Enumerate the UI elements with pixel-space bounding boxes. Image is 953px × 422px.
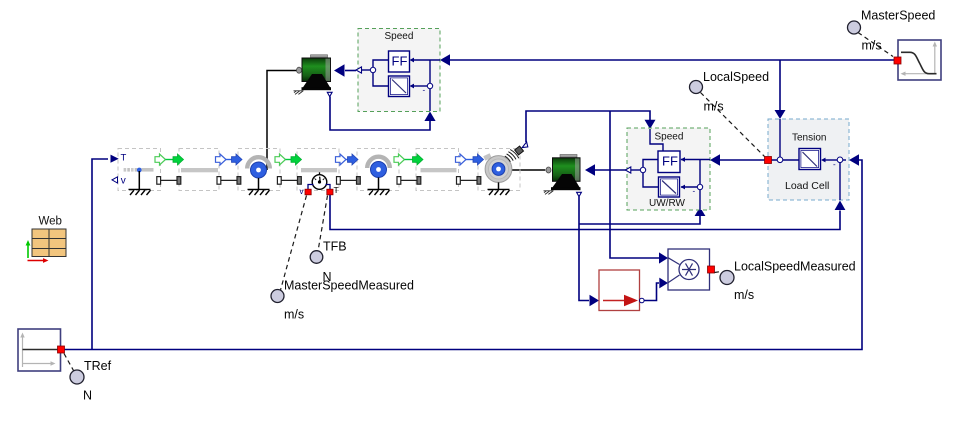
dashed link MasterSpeedMeasured bubble to gauge v connector [281,196,307,291]
svg-text:MasterSpeedMeasured: MasterSpeedMeasured [284,279,414,293]
module box roller 1 [238,149,280,191]
svg-text:-: - [693,187,696,196]
node MasterSpeedMeasured bubble [271,290,284,303]
web span bar 1 [181,168,218,172]
svg-text:Speed: Speed [385,31,414,42]
wire branch TRef to unwind module T input [92,159,108,350]
connector v (red square) [305,189,311,195]
damper pair 6 [457,177,481,185]
arrowhead into Speed box 1 bottom feedback [424,112,435,122]
svg-text:T: T [334,185,339,195]
node LocalSpeedMeasured bubble [720,271,734,285]
wire branch radius signal to multiplier top input [610,111,659,258]
web span bar 2 [301,168,337,172]
connector red square on tension box [765,157,772,164]
svg-text:FF: FF [662,153,678,168]
connector arrow pair green 1 [155,154,184,165]
wire UW/RW Speed output to motor M2 [595,169,627,171]
roller 2 [367,157,390,189]
damper pair 5 [397,177,421,185]
arrowhead into speed sensor block input [590,295,600,307]
web span bar 3 [421,168,457,172]
svg-text:Load Cell: Load Cell [785,180,829,192]
ground under roller 2 [368,189,390,195]
output port triangle [356,67,362,73]
svg-text:LocalSpeed: LocalSpeed [703,70,769,84]
svg-text:Web: Web [39,216,62,228]
svg-text:-: - [423,86,426,95]
damper pair 4 [337,177,361,185]
svg-text:N: N [83,389,92,403]
wire winder shaft black [512,169,545,171]
svg-text:T: T [121,152,127,163]
svg-text:Speed: Speed [655,132,684,143]
connector arrow pair green 5 [394,154,423,165]
svg-text:UW/RW: UW/RW [649,198,685,209]
svg-text:LocalSpeedMeasured: LocalSpeedMeasured [734,260,856,274]
motor M1 (master drive) [297,55,332,90]
arrowhead into Tension box top [775,110,786,119]
roller 1 [247,157,270,189]
wire net TFB: gauge T output to Load Cell feedback [330,195,840,230]
svg-text:v: v [121,175,126,186]
node TFB bubble [310,251,323,264]
speed sensor block (red) [599,270,644,311]
svg-text:TRef: TRef [84,359,112,373]
arrowhead into UW/RW Speed box top [645,120,656,129]
radius sensor head (diamond) [515,146,524,155]
arrowhead into motor M2 [585,164,595,175]
damper pair 3 [277,177,301,185]
tension gauge sensor [308,172,330,189]
arrowhead into UW/RW Speed box right input [710,154,720,165]
connector T (red square) [327,189,333,195]
controller box Speed UW/RW (local) [625,128,710,216]
wire net TRef: constant source to Load Cell reference [65,160,863,350]
module box winder [478,149,520,191]
svg-text:FF: FF [392,53,408,68]
svg-text:TFB: TFB [323,240,347,254]
unwind block content [112,152,154,189]
svg-text:-: - [833,160,836,169]
arrowhead into Tension box bottom feedback [835,201,846,211]
wire branch MasterSpeed down to Tension box [779,60,781,110]
summing node [370,67,375,72]
damper pair 2 [217,177,241,185]
arrowhead into motor M1 [334,64,345,76]
wire motor1 shaft black [267,71,297,171]
radius sensor waves [505,150,519,162]
connector arrow pair blue 6 [456,154,484,165]
arrowhead into multiplier bottom input [659,278,668,289]
arrowhead into Tension box right reference input [849,154,859,165]
Web parameter table [26,216,66,263]
wire branch M2 speed feedback to UW/RW Speed box [579,216,700,224]
arrowhead into unwind module T input [111,155,119,163]
arrowhead into UW/RW Speed box bottom feedback [695,207,706,216]
controller box Tension / Load Cell [765,119,850,200]
dashed link TFB bubble to gauge T connector [318,196,328,252]
node TRef bubble [70,370,84,384]
ground under winder [488,189,510,195]
module box web span 3 [416,149,459,191]
feedback node [427,83,432,88]
svg-text:m/s: m/s [862,39,882,53]
wire multiplier output to LocalSpeedMeasured connector [699,269,708,271]
multiplier block [668,249,715,290]
svg-text:m/s: m/s [704,100,724,114]
winder (wound roll) [483,153,512,189]
dashed link LocalSpeed bubble to tension connector [701,93,765,157]
source block MasterSpeed ramp-down [894,40,941,80]
controller box Speed (master) [356,29,440,112]
wire motor M2 flange to speed sensor block [579,197,589,301]
dashed link MasterSpeed bubble to source connector [858,33,893,57]
arrowhead into Speed box 1 right input [440,54,450,65]
dashed link LocalSpeedMeasured bubble to multiplier output [715,272,721,273]
motor M2 flange port [577,192,582,196]
dashed link TRef bubble to source connector [64,354,74,371]
wire net MasterSpeed: ramp source to Speed controller 1 [449,59,894,61]
svg-text:v: v [300,187,304,196]
ground under unwind [129,189,151,195]
wire Tension correction output to UW/RW Speed box [720,159,772,161]
svg-text:MasterSpeed: MasterSpeed [861,9,935,23]
PI ramp block [389,76,410,97]
connector arrow pair blue 2 [216,154,243,165]
connector arrow pair blue 4 [336,154,359,165]
ground under roller 1 [248,189,270,195]
module box web span 1 [179,149,219,191]
sensor output port triangle [522,142,528,148]
wire speed sensor output to multiplier bottom input [644,283,659,301]
module box web span 2 with gauge [297,149,339,191]
wire motor M1 flange speed feedback to Speed box 1 [330,97,430,131]
svg-text:m/s: m/s [734,288,754,302]
node LocalSpeed bubble [690,81,703,94]
load cell ramp block [799,149,821,170]
damper pair 1 [157,177,181,185]
svg-text:m/s: m/s [284,308,304,322]
FF block U1 [389,51,410,72]
motor M2 (local drive) [546,155,581,191]
wire Speed 1 output to motor M1 [345,70,356,72]
PI ramp block 2 [659,177,680,197]
source block TRef constant [18,329,65,371]
FF block U2 [658,151,680,173]
wire winder radius sensor to UW/RW Speed box [526,111,650,142]
ground hatch under motor M1 [294,91,304,95]
ground hatch under motor M2 [544,191,554,195]
arrowhead into multiplier top input [659,252,668,263]
motor M1 flange port [327,92,332,96]
svg-text:Tension: Tension [792,132,826,143]
node MasterSpeed bubble [848,21,861,34]
connector arrow pair green 3 [275,154,302,165]
module box roller 2 [357,149,399,191]
module box unwind stand [118,149,161,191]
